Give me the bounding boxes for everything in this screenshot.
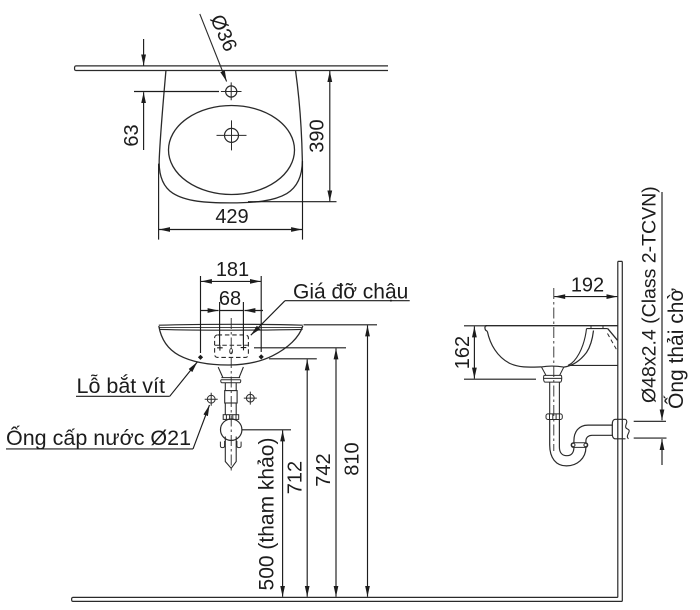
front view: bracket inner dashed line	[215, 344, 248, 346]
side view: rear flat bottom line	[568, 364, 618, 366]
front view: hanger bracket dashed rect	[215, 335, 249, 358]
dimension Ø36 leader	[200, 14, 227, 82]
svg-text:Giá đỡ chậu: Giá đỡ chậu	[293, 281, 408, 304]
dimension 68 left outside arrow	[201, 310, 219, 312]
side view: U-bend outer curve	[550, 420, 586, 466]
dimension 181 line	[201, 280, 261, 282]
label Ong cap nuoc underline	[6, 448, 193, 450]
dimension 162 top extension line	[464, 325, 487, 327]
top view: inner bowl ellipse	[169, 106, 295, 195]
svg-text:162: 162	[452, 336, 474, 369]
top view: basin outline	[159, 71, 302, 203]
svg-text:Ø36: Ø36	[205, 11, 240, 54]
svg-text:Ø48x2.4 (Class 2-TCVN): Ø48x2.4 (Class 2-TCVN)	[639, 186, 661, 403]
svg-text:810: 810	[342, 442, 364, 475]
side view: pipe break squiggle	[626, 419, 630, 439]
dimension 181 left extension line	[200, 276, 202, 353]
dimension 68 line between	[220, 310, 244, 312]
extension line rim to 810	[304, 324, 378, 326]
svg-text:63: 63	[121, 124, 143, 146]
svg-text:181: 181	[216, 259, 249, 281]
side view: outlet bend and horizontal pipe	[574, 425, 613, 443]
front view: trap nut	[223, 415, 239, 420]
dimension 63 extension line	[134, 91, 219, 93]
front view: tailpipe middle	[225, 403, 236, 415]
side view: rear bracket ticks	[591, 326, 603, 329]
side view: collar through wall	[617, 419, 626, 439]
dimension 390 line	[329, 71, 331, 201]
side view: wall hook solid diagonal	[608, 329, 618, 341]
front view: trap circle	[221, 419, 242, 440]
dimension 162 line	[473, 326, 475, 378]
side view: front lip	[485, 326, 487, 332]
svg-text:Lỗ bắt vít: Lỗ bắt vít	[77, 373, 165, 398]
front view: left screw hole diamond	[198, 355, 203, 360]
extension line screw holes to 712	[269, 358, 317, 360]
svg-text:192: 192	[571, 275, 604, 297]
front view: centerline	[230, 318, 232, 471]
outlet dimension leader line with labels	[661, 192, 663, 420]
dimension 192 line	[554, 296, 617, 298]
outlet dimension lower arrow	[661, 439, 663, 465]
floor double line	[72, 597, 623, 601]
dimension 68 left extension line	[219, 302, 221, 345]
dimension 181 right extension line	[260, 276, 262, 352]
side view: rear bracket top edge	[587, 328, 608, 330]
front view: bracket left hole cross	[217, 345, 223, 351]
dimension 390 bottom extension line	[248, 201, 337, 203]
top view: drain hole crosshair	[217, 120, 247, 150]
front view: tailpipe lower with cap	[225, 437, 236, 469]
dimension 429 left extension line	[158, 164, 160, 240]
svg-text:500 (tham khảo): 500 (tham khảo)	[256, 438, 279, 591]
dimension 68 right outside arrow	[244, 310, 263, 312]
side view: U-bend inner curve	[559, 420, 574, 456]
side view: centerline	[553, 288, 555, 451]
front view: tailpipe upper	[225, 383, 236, 391]
outlet dimension top extension line	[634, 420, 666, 422]
front view: left supply hole	[205, 393, 218, 406]
dimension 500 line	[282, 430, 284, 596]
side view: riser union nut	[571, 443, 588, 448]
label Gia do chau leader	[251, 301, 285, 336]
label Gia do chau underline	[285, 300, 410, 302]
top view: faucet hole crosshair	[221, 82, 242, 100]
dimension 63 upper arrow	[143, 39, 145, 66]
svg-text:68: 68	[219, 288, 241, 310]
side view: drain flange	[541, 367, 563, 382]
dimension 712 line	[306, 359, 308, 596]
front view: right supply hole	[244, 392, 257, 405]
side view: wall escutcheon collar	[612, 419, 618, 439]
top view: wall/counter edge bar	[75, 66, 388, 71]
dimension 63 lower arrow	[143, 92, 145, 150]
front view: drain flange	[221, 378, 241, 383]
front view: bracket center slot	[230, 349, 233, 354]
dimension 162 bottom extension line	[464, 378, 536, 380]
svg-text:Ống cấp nước Ø21: Ống cấp nước Ø21	[6, 424, 191, 450]
svg-text:742: 742	[313, 453, 335, 486]
label Lo bat vit underline	[76, 395, 170, 397]
dimension 810 line	[367, 325, 369, 596]
front view: basin body outline	[159, 326, 303, 365]
wall double line	[618, 261, 623, 601]
extension line trap to 500	[242, 429, 291, 431]
outlet dimension bottom extension line	[634, 437, 667, 439]
front view: trap side tabs	[220, 441, 241, 448]
front view: right screw hole diamond	[259, 354, 264, 359]
front view: bracket right hole cross	[241, 345, 247, 351]
dimension 742 line	[335, 348, 337, 596]
label Lo bat vit leader	[170, 362, 198, 396]
dimension 429 right extension line	[302, 161, 304, 240]
extension line bracket holes to 742	[254, 347, 346, 349]
side view: bowl inner curve	[487, 331, 593, 368]
front view: drain shroud	[218, 367, 243, 378]
dimension 68 right extension line	[242, 302, 244, 345]
svg-text:Ống thải chờ: Ống thải chờ	[664, 288, 688, 409]
side view: bowl bottom edge over flange	[541, 365, 563, 368]
top view: faucet hole circle	[226, 86, 237, 97]
svg-text:390: 390	[307, 119, 329, 152]
side view: trap nut	[546, 414, 562, 420]
svg-text:712: 712	[285, 461, 307, 494]
label Ong cap nuoc leader	[193, 405, 210, 449]
side view: rear profile curve	[568, 329, 587, 366]
top view: drain hole circle	[225, 128, 239, 142]
front view: pipe sleeve	[225, 391, 237, 403]
side view: rim line	[486, 325, 618, 327]
side view: wall hook dashed diagonal	[608, 334, 617, 350]
front view: rim lines	[159, 324, 303, 330]
side view: tailpipe	[550, 382, 560, 414]
dimension 429 line	[159, 229, 302, 231]
svg-text:429: 429	[215, 206, 248, 228]
